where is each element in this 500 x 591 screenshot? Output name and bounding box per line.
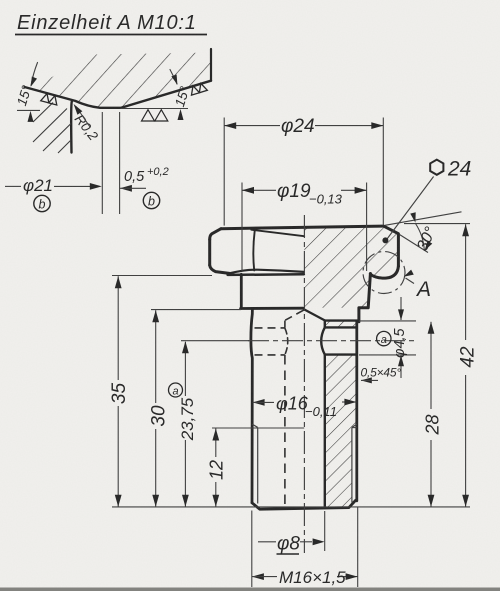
detail groove profile (25, 81, 212, 108)
neck left edge with relief waist (251, 308, 253, 502)
circled a right (377, 331, 391, 345)
surface marks left slope (41, 93, 59, 106)
hex top chamfer line (251, 230, 304, 237)
bore right wall (324, 321, 326, 507)
dim phi4,5 (359, 320, 416, 322)
dim phi16 -0,11 (253, 399, 265, 406)
ref line y223.6 (42 top) (404, 223, 470, 225)
hex across-flats symbol 24 (430, 160, 443, 175)
30deg chamfer dimension (385, 212, 462, 226)
dim 23,75 (184, 342, 186, 396)
section hatch: shank wall below cross hole (325, 355, 357, 507)
hidden cross hole bottom (dashed) (255, 354, 285, 356)
detail view hatched material (30, 53, 211, 108)
thread start line right (352, 427, 357, 429)
flange bottom left (241, 307, 304, 310)
bottom chamfer left (252, 500, 356, 509)
cross hole centerline (248, 340, 416, 342)
head groove curve (detail A region) (370, 266, 398, 278)
hex facet edge (253, 230, 254, 271)
detail right depth ref line (121, 108, 189, 110)
surface marks groove bottom (apex up) (142, 110, 168, 121)
dim 42 (465, 224, 467, 340)
ref line y309 (30) (151, 309, 241, 311)
dim 28 (430, 322, 432, 409)
dim phi24 (223, 118, 225, 226)
section hatch: head/flange right half (304, 226, 398, 308)
dim phi8 (258, 541, 276, 543)
detail circle A (363, 252, 405, 294)
head bottom-left bevel arc (210, 265, 230, 273)
dim 35 (117, 276, 119, 380)
leader hex symbol to head (387, 177, 434, 240)
dim phi19 -0,13 (241, 183, 243, 272)
phi21 dimension (5, 185, 21, 187)
scan edge bottom (0, 588, 500, 591)
cross hole left cap arc (321, 327, 325, 354)
ref line y275 (35) (112, 275, 212, 277)
groove width extension lines (101, 112, 103, 214)
circled b left (34, 195, 50, 211)
hidden bore cone left (dashed) (285, 310, 304, 320)
hidden hole/bore intersection arc (dashed) (285, 328, 288, 355)
detail right boundary edge (210, 49, 212, 81)
cross hole (section) top/bottom edges (325, 327, 357, 354)
sealing face under flange (325, 319, 359, 321)
dim 30 (155, 310, 157, 403)
shank right edge (355, 322, 358, 501)
ref line y341 (23,75) (181, 340, 249, 342)
head top-left bevel arc (210, 229, 221, 240)
circled b right (143, 192, 159, 208)
head bottom upper line (chamfer arcs) (229, 270, 304, 274)
hidden cross hole top (dashed) (255, 327, 285, 329)
flange left edge (240, 274, 243, 308)
bottom ref line y507 (112, 506, 470, 508)
detail lower-left hatch (33, 103, 53, 123)
head left edge (208, 240, 211, 266)
flange right edge (359, 274, 371, 322)
thread minor line right (section) (351, 427, 353, 502)
vertical centerline (303, 215, 305, 553)
dim M16x1,5 (251, 511, 253, 588)
section hatch: wall band above cross hole (325, 321, 357, 327)
dim 12 (215, 429, 217, 458)
thread minor line left (257, 427, 259, 503)
ref line y428 (12) + thread start (212, 427, 304, 429)
detail left depth ref line (17, 109, 40, 111)
detail lip vertical face (phi21) (70, 102, 73, 153)
hex head outline (221, 226, 398, 266)
circled a left (169, 383, 183, 397)
bore cone right (section) (305, 310, 326, 321)
head bottom lower line (228, 273, 304, 276)
hidden bore left wall (dashed) (284, 321, 286, 328)
surface marks right slope (189, 82, 207, 95)
